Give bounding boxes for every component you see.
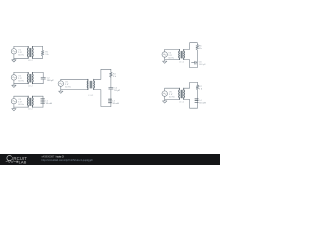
wire C3 primary top (14, 95, 28, 97)
transformer T5 (179, 49, 185, 59)
ground below V6 (163, 99, 167, 103)
wire C5 primary bottom (165, 59, 180, 61)
wire C5 secondary top stub (184, 43, 198, 50)
resistor R7 (196, 85, 199, 90)
R1 labels (45, 52, 49, 56)
wire C1 primary bottom (14, 57, 28, 59)
L5 labels (46, 101, 53, 105)
R6 labels (199, 46, 203, 50)
wire bottom lead V1 (13, 54, 15, 58)
wire C6 load mid (184, 90, 198, 109)
inductor L5 (41, 99, 45, 103)
V5 labels (168, 53, 174, 60)
wire C3 load edge (42, 96, 44, 107)
wire C2 primary bottom (14, 83, 28, 85)
ground below V5 (163, 60, 167, 64)
wire C2 load top (42, 72, 44, 77)
wire column top (110, 69, 112, 72)
V4 labels (65, 82, 71, 89)
capacitor C4cap (109, 88, 113, 89)
wire C4 secondary top stub (94, 69, 111, 79)
wire top lead V1 (13, 46, 15, 48)
transformer T3 (27, 96, 33, 107)
voltage source V1 (11, 49, 16, 54)
voltage source V2 (11, 75, 16, 80)
transformer T6 (179, 88, 185, 99)
inductor L4 (195, 99, 198, 103)
wire C5 primary top (165, 48, 180, 50)
voltage source V6 (162, 91, 167, 96)
wire C3 primary bottom (14, 106, 28, 108)
wire C5 load right (184, 50, 198, 68)
wire bottom lead V2 (13, 80, 15, 84)
ground below V2 (12, 84, 16, 88)
inductor L3 (108, 99, 111, 103)
wire C1 secondary bottom (32, 57, 42, 59)
wire top lead V6 (164, 88, 166, 91)
voltage source V4 (58, 81, 63, 86)
transformer T4 (87, 79, 94, 89)
V3 labels (18, 99, 24, 106)
V6 labels (169, 92, 175, 99)
L4 labels (199, 100, 206, 104)
capacitor C6 (192, 61, 198, 64)
voltage source V5 (162, 52, 167, 57)
wire C5 load top (196, 43, 198, 45)
wire C2 primary top (14, 71, 28, 73)
C6 labels (199, 62, 207, 67)
svg-text:s45800087 / tuto 3: s45800087 / tuto 3 (42, 155, 65, 159)
ground below V3 (12, 107, 16, 111)
wire column mid1 (110, 77, 112, 87)
wire top lead V4 (60, 79, 62, 81)
ground below V1 (12, 58, 16, 62)
wire column mid2 (110, 90, 112, 107)
resistor R4 (110, 72, 113, 77)
CircuitLab logo (6, 156, 28, 165)
V1 labels (18, 49, 24, 56)
wire C3 secondary top (32, 95, 43, 97)
wire C3 secondary bottom (32, 106, 43, 108)
capacitor C2cap (41, 78, 45, 79)
R4 labels (113, 73, 117, 77)
resistor R1 (41, 50, 44, 56)
wire C6 primary bottom (165, 98, 180, 100)
wire C6 primary top (165, 87, 180, 89)
L3 labels (112, 101, 119, 105)
ground below V4 (59, 90, 63, 94)
wire top lead V3 (13, 96, 15, 98)
R7 labels (199, 86, 203, 90)
watermark bar (0, 154, 220, 165)
voltage source V3 (11, 99, 16, 104)
wire C4 secondary bottom stub (94, 90, 111, 107)
wire C2 secondary top (32, 71, 43, 73)
wire C4 primary bottom (61, 89, 88, 91)
wire top lead V5 (164, 49, 166, 51)
transformer T2 (27, 72, 33, 83)
svg-text:LAB: LAB (19, 159, 27, 164)
wire C2 load bottom (42, 79, 44, 83)
C4cap labels (114, 88, 120, 92)
wire C1 load top (42, 46, 44, 50)
wire C4 primary top (61, 78, 88, 80)
wire bottom lead V3 (13, 104, 15, 107)
wire bottom lead V6 (164, 96, 166, 99)
resistor R6 (196, 45, 199, 51)
svg-text:http://circuitlab.com/c/p7mh5/: http://circuitlab.com/c/p7mh5/tuto-3-pup… (42, 158, 93, 162)
wire bottom lead V4 (60, 86, 62, 89)
wire top lead V2 (13, 72, 15, 74)
wire bottom lead V5 (164, 57, 166, 59)
transformer T1 (27, 46, 33, 58)
C2cap labels (47, 77, 55, 81)
wire C1 primary top (14, 45, 28, 47)
wire C2 secondary bottom (32, 83, 43, 85)
wire C6 load top (197, 82, 199, 85)
wire C6 secondary top stub (184, 82, 198, 88)
V2 labels (18, 75, 24, 82)
wire C1 secondary top (32, 45, 42, 47)
wire C1 load bottom (42, 56, 44, 58)
